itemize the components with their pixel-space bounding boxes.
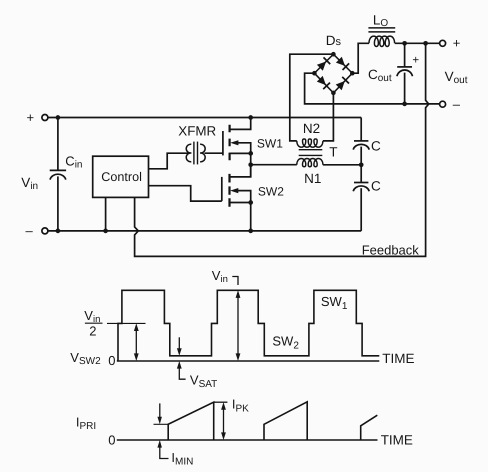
node C midpoint (359, 162, 364, 167)
reference line Vin/2 level (107, 322, 146, 324)
svg-text:VSAT: VSAT (190, 372, 217, 390)
inductor Lo (369, 36, 395, 46)
transformer T winding N1 (297, 159, 323, 167)
diode D bottom-right (336, 77, 349, 90)
svg-text:Control: Control (101, 170, 142, 184)
current ramp 2 (264, 402, 307, 440)
svg-text:SW1: SW1 (257, 136, 283, 150)
node bridge top vertex (331, 52, 336, 57)
wire control ground leg (105, 197, 107, 231)
svg-text:VSW2: VSW2 (70, 350, 101, 367)
transformer T core (299, 150, 323, 156)
svg-text:Cout: Cout (368, 67, 392, 84)
waveform VSW2 trace (118, 290, 379, 361)
waveform axis (time) upper (117, 360, 380, 362)
dimension arrow Vin/2 (134, 323, 139, 361)
transistor SW1 (N-MOSFET) (223, 118, 253, 177)
label Vin/2 fraction (84, 308, 100, 338)
node -rail/Cin junction (56, 229, 61, 234)
svg-text:XFMR: XFMR (178, 124, 216, 139)
svg-text:C: C (371, 179, 381, 194)
svg-text:Ds: Ds (326, 33, 342, 48)
svg-text:SW1: SW1 (321, 294, 348, 312)
wire SW junction to N1 (251, 164, 297, 166)
diode D top-left (317, 57, 330, 70)
svg-text:0: 0 (108, 353, 115, 368)
svg-text:SW2: SW2 (272, 334, 299, 352)
svg-text:0: 0 (108, 432, 115, 447)
wire control out2 to SW2 gate (149, 186, 222, 201)
svg-text:T: T (329, 145, 337, 160)
pointer arrow VSAT upper (177, 337, 182, 356)
svg-text:N2: N2 (303, 121, 320, 136)
svg-text:+: + (453, 35, 461, 50)
dimension arrow Vin (236, 290, 241, 361)
svg-text:+: + (27, 110, 35, 125)
svg-text:SW2: SW2 (258, 185, 284, 199)
diode bridge Ds outline (314, 54, 352, 93)
svg-text:N1: N1 (304, 171, 321, 186)
wire top + rail (48, 117, 361, 119)
capacitor Cin (50, 118, 66, 231)
svg-text:Vin: Vin (21, 175, 38, 192)
pointer arrow VSAT lower with bracket (177, 361, 186, 379)
node feedback tap (423, 41, 428, 46)
transformer T winding N2 (297, 139, 323, 147)
capacitor C lower (353, 165, 369, 231)
svg-text:2: 2 (89, 323, 96, 338)
wire bridge left vertex to output - rail (305, 73, 440, 104)
waveform axis (time) lower (117, 439, 378, 441)
node Lo/Cout junction (402, 41, 407, 46)
svg-text:Vout: Vout (445, 69, 468, 86)
dimension arrow IPK (221, 402, 226, 440)
node SW2 source / -rail (248, 229, 253, 234)
wire output + rail (395, 42, 440, 44)
input - terminal (42, 228, 48, 234)
reference tick IPK (214, 401, 228, 403)
inductor Lo core bars (368, 28, 395, 32)
capacitor Cout (397, 43, 413, 104)
svg-text:Vin: Vin (212, 268, 228, 285)
node control leg / -rail (103, 229, 108, 234)
diode D top-right (336, 57, 349, 70)
svg-text:+: + (412, 54, 419, 66)
svg-text:TIME: TIME (381, 433, 413, 448)
wire bridge right vertex to Lo (352, 43, 369, 73)
wire bottom - rail (48, 230, 361, 232)
svg-text:C: C (371, 139, 381, 154)
wire N1 to C midpoint (323, 164, 361, 166)
current ramp 1 (168, 402, 214, 440)
reference line IMIN (154, 423, 169, 425)
node bridge right vertex (350, 71, 355, 76)
svg-text:Feedback: Feedback (362, 243, 420, 258)
output - terminal (440, 101, 446, 107)
transistor SW2 (N-MOSFET) (222, 165, 253, 231)
diode D bottom-left (317, 76, 330, 89)
pointer arrow IMIN lower with bracket (157, 440, 168, 459)
node bridge bottom vertex (331, 91, 336, 96)
node SW1 source / SW2 drain rail (248, 162, 253, 167)
svg-text:TIME: TIME (382, 351, 414, 366)
svg-text:LO: LO (373, 12, 389, 29)
control block U1 (93, 156, 149, 197)
svg-text:–: – (26, 223, 34, 238)
wire control out1 to XFMR (149, 153, 190, 169)
input + terminal (42, 115, 48, 121)
node Cout / - rail (402, 102, 407, 107)
wire feedback loop with crossover jogs (135, 43, 429, 256)
node +rail/Cin junction (56, 115, 61, 120)
node SW1 drain / +rail (248, 115, 253, 120)
capacitor C upper (353, 118, 369, 165)
wire N2 left lead to bridge top (290, 54, 334, 141)
svg-text:IPK: IPK (232, 396, 249, 414)
transformer XFMR (186, 142, 223, 165)
output + terminal (440, 40, 446, 46)
wire N2 right lead to bridge bottom (323, 93, 334, 141)
svg-text:Cin: Cin (65, 153, 82, 170)
pointer arrow IMIN upper (157, 403, 162, 424)
svg-text:IPRI: IPRI (76, 414, 96, 432)
node bridge left vertex (312, 71, 317, 76)
svg-text:IMIN: IMIN (171, 450, 193, 468)
current ramp 3 (partial) (361, 415, 378, 440)
svg-text:–: – (453, 96, 461, 111)
